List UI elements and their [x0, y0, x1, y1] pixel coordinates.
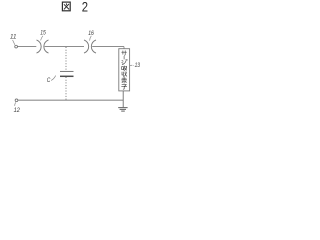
svg-text:12: 12	[14, 107, 20, 114]
svg-text:11: 11	[10, 33, 17, 40]
svg-text:2: 2	[82, 0, 88, 14]
svg-text:C: C	[47, 77, 51, 84]
svg-text:13: 13	[135, 62, 141, 69]
svg-text:16: 16	[88, 30, 94, 37]
svg-text:15: 15	[40, 30, 46, 37]
